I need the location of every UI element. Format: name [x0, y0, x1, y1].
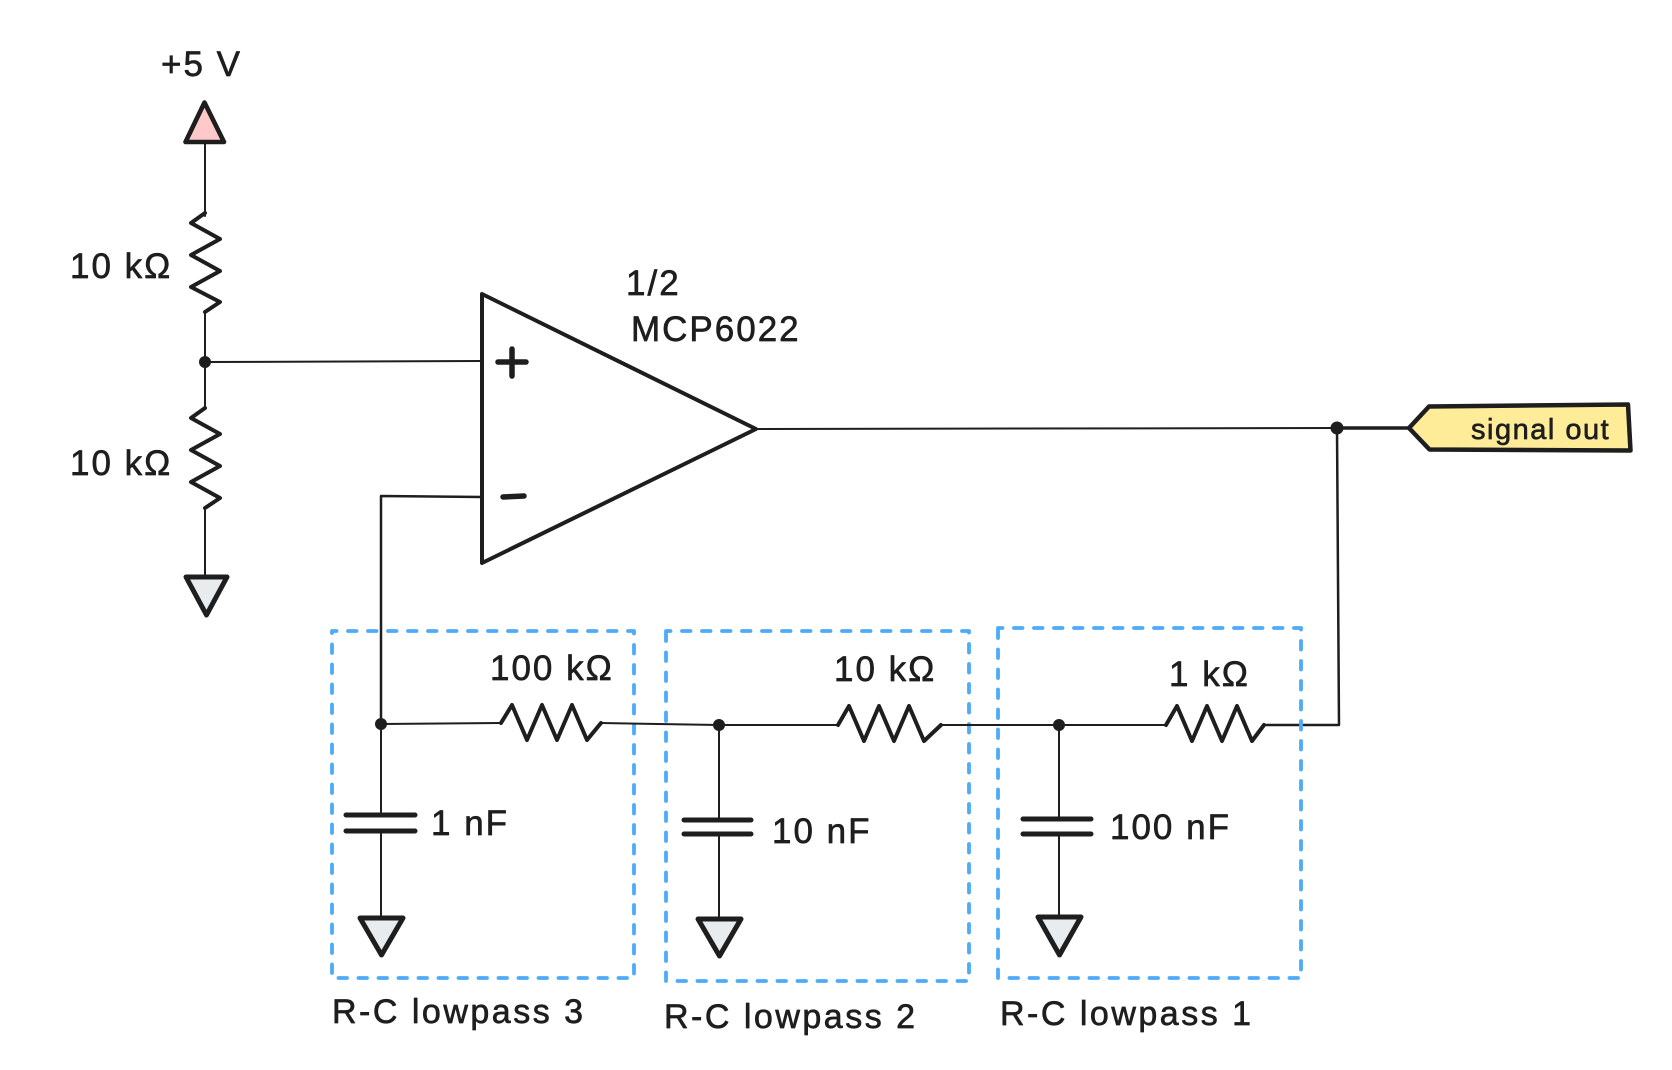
wire node C1 to capacitor C1: [1058, 725, 1060, 817]
ground (lowpass 3): [360, 918, 403, 955]
svg-text:10 nF: 10 nF: [772, 812, 872, 851]
wire R2 to ground: [204, 508, 206, 576]
svg-text:MCP6022: MCP6022: [631, 310, 801, 349]
node C1 junction dot: [1053, 719, 1065, 731]
wire C2 to ground: [718, 836, 720, 918]
ground (divider): [186, 577, 227, 615]
resistor R1 10 kΩ: [191, 213, 220, 312]
node C3 junction dot: [375, 718, 387, 730]
wire node C3 to R3: [381, 723, 501, 724]
dashed enclosure R-C lowpass 2: [666, 631, 969, 981]
svg-text:10 kΩ: 10 kΩ: [834, 650, 936, 689]
wire op-amp - input feedback to lowpass 3 node: [381, 496, 482, 724]
svg-text:1/2: 1/2: [626, 264, 681, 303]
op-amp U1: [482, 294, 756, 563]
wire C1 to ground: [1058, 836, 1060, 917]
svg-text:100 nF: 100 nF: [1110, 808, 1231, 847]
svg-text:signal out: signal out: [1471, 414, 1610, 446]
wire R1 to node A: [204, 311, 206, 362]
svg-text:R-C lowpass 3: R-C lowpass 3: [332, 993, 586, 1031]
resistor R4 10 kΩ: [838, 706, 941, 741]
node C2 junction dot: [713, 719, 725, 731]
svg-text:100 kΩ: 100 kΩ: [490, 649, 614, 688]
wire node B to signal out flag: [1337, 426, 1409, 430]
capacitor C3 1 nF: [346, 815, 415, 831]
resistor R2 10 kΩ: [204, 362, 206, 409]
wire node C1 to R5: [1059, 724, 1166, 726]
dashed enclosure R-C lowpass 1: [998, 628, 1301, 978]
ground (lowpass 1): [1038, 917, 1081, 955]
wire node A to op-amp + input: [205, 361, 481, 362]
node B junction dot: [1331, 422, 1344, 435]
svg-text:+5 V: +5 V: [161, 45, 242, 84]
wire R4 to lowpass 1 node: [941, 724, 1059, 726]
wire R3 to lowpass 2 node: [601, 723, 719, 725]
svg-text:1 nF: 1 nF: [431, 804, 509, 843]
resistor R3 100 kΩ: [501, 705, 601, 740]
ground (lowpass 2): [698, 919, 741, 956]
capacitor C2 10 nF: [684, 820, 751, 834]
op-amp minus pin mark: [503, 496, 524, 497]
wire op-amp output to node B: [756, 428, 1337, 429]
resistor R5 1 kΩ: [1166, 706, 1264, 741]
signal out flag: [1409, 405, 1631, 451]
svg-text:10 kΩ: 10 kΩ: [70, 444, 172, 483]
wire node C3 to capacitor C3: [380, 724, 382, 813]
svg-text:1 kΩ: 1 kΩ: [1169, 655, 1250, 694]
svg-text:R-C lowpass 1: R-C lowpass 1: [1000, 995, 1254, 1033]
wire node B down to lowpass 1: [1264, 428, 1339, 725]
wire node C2 to capacitor C2: [718, 725, 720, 818]
node A junction dot: [199, 356, 211, 368]
capacitor C1 100 nF: [1023, 819, 1091, 834]
wire node C2 to R4: [719, 724, 838, 726]
wire C3 to ground: [380, 833, 382, 917]
op-amp plus pin mark: [498, 349, 526, 376]
svg-text:R-C lowpass 2: R-C lowpass 2: [664, 998, 918, 1036]
svg-text:10 kΩ: 10 kΩ: [70, 247, 172, 286]
dashed enclosure R-C lowpass 3: [332, 631, 634, 978]
power symbol +5V: [186, 103, 225, 143]
wire power to R1: [204, 143, 206, 216]
